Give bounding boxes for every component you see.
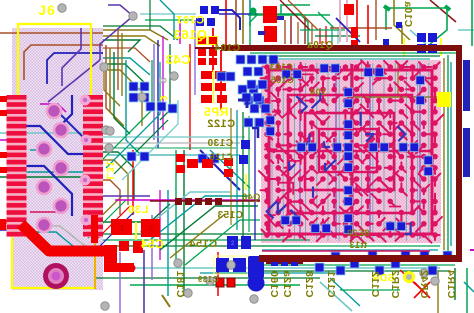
wire xyxy=(403,38,405,56)
wire xyxy=(126,60,140,154)
wire xyxy=(288,0,318,30)
wire xyxy=(121,33,123,96)
wire xyxy=(40,104,66,112)
termination capacitor pads xyxy=(315,250,452,275)
wire xyxy=(304,18,306,44)
wire xyxy=(103,195,150,197)
svg-text:Q10a: Q10a xyxy=(307,40,333,51)
wire xyxy=(151,215,153,280)
connector J6 side holes xyxy=(80,95,92,226)
svg-text:C12a: C12a xyxy=(281,270,293,297)
wire xyxy=(200,150,240,190)
inductor L30 pad 1 xyxy=(111,219,132,235)
wire xyxy=(100,60,152,162)
svg-text:C126: C126 xyxy=(209,152,233,162)
wire xyxy=(36,232,80,252)
capacitor CP1 body xyxy=(248,256,264,278)
wire xyxy=(115,199,260,201)
wire xyxy=(145,19,193,21)
wire xyxy=(114,52,130,134)
resistor pads R? xyxy=(197,36,218,65)
wire xyxy=(200,272,340,274)
capacitor pads xyxy=(214,256,248,274)
svg-text:L31: L31 xyxy=(104,161,115,180)
wire xyxy=(106,45,118,120)
U1 inner layer wires xyxy=(267,93,411,234)
wire xyxy=(157,40,159,148)
wire xyxy=(249,0,251,26)
U1 escape route wires xyxy=(265,71,401,228)
svg-text:Q163: Q163 xyxy=(173,27,207,42)
wire xyxy=(258,264,455,266)
wire xyxy=(122,100,178,180)
svg-text:C1R4: C1R4 xyxy=(445,270,457,299)
svg-text:C105: C105 xyxy=(270,75,294,85)
svg-text:L30: L30 xyxy=(128,204,148,216)
mounting hole xyxy=(43,263,69,289)
wire xyxy=(140,13,196,15)
wire xyxy=(60,95,72,126)
wire xyxy=(330,278,360,306)
wire xyxy=(320,282,352,311)
wire xyxy=(159,190,161,260)
connector J6 outline top xyxy=(18,24,91,101)
wire xyxy=(91,28,93,44)
wire xyxy=(0,176,100,178)
wire xyxy=(471,0,473,46)
wire xyxy=(219,10,240,30)
wire xyxy=(254,118,256,240)
connector J6 pad field right xyxy=(83,95,103,237)
wire xyxy=(167,190,169,296)
wire xyxy=(346,0,348,42)
wire xyxy=(280,0,310,30)
wire xyxy=(350,96,440,98)
wire xyxy=(18,126,100,154)
wire xyxy=(437,270,439,313)
wire xyxy=(194,20,196,95)
wire xyxy=(430,0,456,22)
wire xyxy=(103,36,160,46)
wire xyxy=(319,28,321,44)
power trace elbow xyxy=(104,245,117,268)
svg-text:C1R2: C1R2 xyxy=(389,270,401,299)
wire xyxy=(160,0,174,40)
wire xyxy=(262,250,430,252)
connector J6 pad field left xyxy=(7,95,27,237)
wire xyxy=(268,58,430,60)
svg-text:2: 2 xyxy=(149,225,153,232)
decoupling capacitor pads xyxy=(127,72,264,163)
wire xyxy=(400,270,424,292)
svg-text:C154: C154 xyxy=(188,238,217,250)
U1 inner signal wires xyxy=(300,64,420,239)
connector J6 edge pads xyxy=(0,96,7,230)
wire xyxy=(0,229,18,231)
wire xyxy=(26,171,100,173)
svg-text:C104: C104 xyxy=(214,43,240,54)
wire xyxy=(160,44,170,120)
svg-text:C139: C139 xyxy=(197,275,218,284)
connector J6 outline bottom xyxy=(12,230,95,288)
svg-text:8: 8 xyxy=(156,77,168,84)
capacitor C101 pads xyxy=(258,6,284,42)
yellow bracket xyxy=(135,222,137,240)
svg-text:tt13: tt13 xyxy=(349,240,367,250)
capacitor pads xyxy=(271,259,298,266)
wire xyxy=(430,8,447,44)
wire xyxy=(410,30,426,44)
svg-text:C101: C101 xyxy=(176,13,204,25)
wire xyxy=(103,64,148,86)
wire xyxy=(454,268,456,300)
wire xyxy=(50,104,90,160)
vias xyxy=(58,4,439,310)
wire xyxy=(315,35,360,37)
wire xyxy=(48,60,100,102)
wire xyxy=(114,120,168,174)
svg-text:C121: C121 xyxy=(325,270,337,297)
wire xyxy=(331,25,333,44)
svg-text:C153: C153 xyxy=(217,210,243,221)
wire xyxy=(100,16,133,60)
wire xyxy=(0,139,20,141)
via xyxy=(129,265,136,272)
wire xyxy=(175,150,177,265)
component outline xyxy=(250,14,308,46)
wire xyxy=(414,282,430,298)
wire xyxy=(447,55,449,253)
wire xyxy=(93,206,130,243)
wire xyxy=(330,27,392,29)
wire xyxy=(297,22,299,44)
wire xyxy=(445,6,450,10)
connector J6 copper plane xyxy=(12,28,103,290)
wire xyxy=(219,13,258,15)
power stub xyxy=(91,215,98,243)
wire xyxy=(103,40,140,52)
wire xyxy=(212,28,214,72)
wire xyxy=(103,48,150,62)
wire xyxy=(337,27,339,44)
via xyxy=(250,8,257,15)
wire xyxy=(106,62,160,168)
wire xyxy=(104,67,120,106)
inductor L30 pad 2 xyxy=(141,219,160,237)
wire xyxy=(108,5,133,16)
wire xyxy=(170,214,225,258)
wire xyxy=(290,16,292,44)
wire xyxy=(135,267,440,269)
diode pads xyxy=(216,278,224,287)
wire xyxy=(262,270,450,272)
wire xyxy=(100,233,320,235)
wire xyxy=(108,154,240,156)
wire xyxy=(230,108,232,225)
resistor pads xyxy=(344,4,354,15)
wire xyxy=(140,192,230,232)
wire xyxy=(0,132,100,134)
svg-text:C103: C103 xyxy=(269,62,293,72)
wire xyxy=(458,29,474,31)
wire xyxy=(466,268,468,313)
wire xyxy=(103,204,170,222)
wire xyxy=(30,211,58,213)
svg-text:8E20: 8E20 xyxy=(346,228,369,238)
wire xyxy=(24,45,103,80)
wire xyxy=(103,70,142,103)
svg-text:RP5: RP5 xyxy=(204,105,229,119)
wire xyxy=(98,212,134,248)
capacitor pads C3x xyxy=(201,70,227,103)
wire xyxy=(103,152,134,200)
wire xyxy=(464,282,474,292)
wire xyxy=(252,128,258,138)
wire xyxy=(62,28,81,86)
wire xyxy=(103,160,128,205)
svg-text:C43: C43 xyxy=(165,52,190,67)
capacitor pads xyxy=(383,22,437,53)
wire xyxy=(103,147,236,149)
resistor pads xyxy=(176,154,233,177)
capacitor C139 pads xyxy=(227,236,251,249)
wire xyxy=(110,48,124,126)
wire xyxy=(262,245,440,247)
wire xyxy=(150,200,260,202)
wire xyxy=(384,6,390,10)
wire xyxy=(225,0,227,46)
capacitor pads xyxy=(241,140,250,149)
wire xyxy=(103,180,120,215)
svg-text:J6: J6 xyxy=(38,2,56,18)
wire xyxy=(183,150,185,296)
wire xyxy=(325,26,327,44)
component outline mark xyxy=(245,174,247,190)
wire xyxy=(185,220,260,265)
wire xyxy=(397,62,399,97)
wire xyxy=(248,116,250,232)
wire xyxy=(248,14,330,16)
U1 fanout ring wires xyxy=(267,64,433,239)
svg-text:C181: C181 xyxy=(174,270,186,297)
wire xyxy=(103,58,150,75)
svg-text:C128: C128 xyxy=(303,270,315,297)
wire xyxy=(262,55,440,57)
wire xyxy=(103,239,310,241)
connector J6 keepout line xyxy=(94,213,96,289)
svg-text:C122: C122 xyxy=(207,118,235,130)
wire xyxy=(235,0,237,44)
wire xyxy=(394,0,410,40)
wire xyxy=(141,97,143,126)
wire xyxy=(210,150,250,188)
wire xyxy=(375,0,377,40)
wire xyxy=(95,277,320,279)
wire xyxy=(130,284,300,286)
wire xyxy=(153,44,155,140)
svg-text:3: 3 xyxy=(157,95,168,101)
wire xyxy=(0,220,22,224)
wire xyxy=(384,7,450,9)
wire xyxy=(242,112,244,236)
wire xyxy=(103,136,245,138)
wire xyxy=(336,18,360,42)
wire xyxy=(88,200,126,238)
wire xyxy=(0,32,103,34)
U1 inner vertical bus wires xyxy=(272,63,429,241)
svg-text:CR42: CR42 xyxy=(418,270,430,299)
svg-text:C54: C54 xyxy=(140,237,164,251)
wire xyxy=(150,196,250,240)
wire xyxy=(470,249,474,251)
IC U1 border top xyxy=(221,45,462,51)
wire xyxy=(189,44,191,150)
connector J6 through holes xyxy=(37,104,68,232)
wire xyxy=(103,26,178,40)
wire xyxy=(311,24,313,44)
highlighted pad xyxy=(437,92,451,107)
svg-text:C10a: C10a xyxy=(402,1,413,27)
U1 capacitor pads xyxy=(266,64,433,234)
wire xyxy=(103,30,168,40)
wire xyxy=(100,245,300,247)
wire xyxy=(36,226,85,246)
wire xyxy=(385,8,387,30)
wire xyxy=(300,29,345,31)
wire xyxy=(162,36,164,130)
bus wire xyxy=(195,47,221,49)
wire xyxy=(160,206,258,250)
capacitor pads C54 xyxy=(119,241,129,251)
selected via CR1 xyxy=(403,271,415,283)
connector J6 pin pads xyxy=(7,95,104,236)
IC U1 border bottom xyxy=(259,255,462,262)
wire xyxy=(414,282,430,298)
wire xyxy=(250,52,456,54)
wire xyxy=(117,30,119,90)
wire xyxy=(367,5,369,44)
wire xyxy=(401,25,403,44)
IC U1 border right xyxy=(456,45,462,262)
wire xyxy=(238,100,247,108)
wire xyxy=(47,53,103,84)
wire xyxy=(236,110,238,230)
wire xyxy=(132,150,134,215)
wire xyxy=(162,295,170,307)
wire xyxy=(217,252,219,296)
wire xyxy=(450,62,452,246)
wire xyxy=(281,5,310,15)
power trace xyxy=(21,224,106,251)
wire xyxy=(149,0,151,30)
wire xyxy=(339,0,341,42)
wire xyxy=(179,20,181,44)
wire xyxy=(143,250,145,313)
wire xyxy=(340,289,400,291)
wire xyxy=(18,166,72,216)
wire xyxy=(262,249,438,251)
connector pads xyxy=(463,60,470,111)
wire xyxy=(220,50,222,110)
capacitor pads near U1 xyxy=(236,55,278,113)
svg-text:C112: C112 xyxy=(369,271,381,298)
wire xyxy=(242,0,244,44)
U1 via array and fanout wires xyxy=(259,60,444,242)
svg-text:C160: C160 xyxy=(268,270,280,297)
wire xyxy=(85,196,122,232)
wire xyxy=(440,38,442,56)
wire xyxy=(119,252,121,313)
wire xyxy=(356,0,358,42)
resistor pads xyxy=(187,159,198,168)
svg-text:Q46: Q46 xyxy=(242,192,261,202)
ferrite bead pads xyxy=(175,198,303,264)
IC U1 BGA plane xyxy=(261,60,441,243)
svg-text:1: 1 xyxy=(120,225,124,232)
svg-text:C130: C130 xyxy=(207,138,233,149)
wire xyxy=(443,58,445,250)
wire xyxy=(103,142,240,144)
svg-text:104: 104 xyxy=(310,87,327,97)
wire xyxy=(30,149,44,151)
capacitor pads xyxy=(196,6,219,26)
wire xyxy=(284,20,286,44)
wire xyxy=(318,12,334,28)
